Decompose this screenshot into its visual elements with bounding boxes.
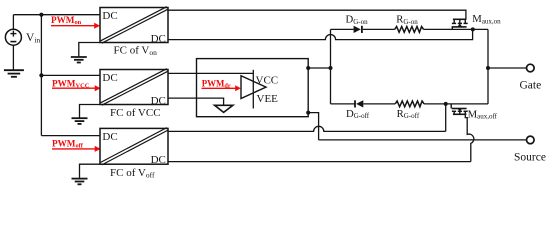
svg-text:DG-on: DG-on bbox=[346, 14, 369, 26]
svg-text:DC: DC bbox=[151, 154, 166, 166]
svg-text:PWMon: PWMon bbox=[51, 15, 82, 26]
wire gate node vertical bbox=[487, 29, 489, 104]
wire diode to resistor bbox=[363, 103, 395, 105]
terminal Gate bbox=[527, 64, 535, 72]
DC-DC converter FC3 (FC of Voff) bbox=[100, 128, 168, 167]
svg-text:Gate: Gate bbox=[520, 79, 542, 91]
DC-DC converter FC1 (FC of Von) bbox=[100, 7, 168, 45]
svg-text:PWMoff: PWMoff bbox=[52, 139, 84, 150]
wire diode to resistor bbox=[363, 28, 395, 30]
svg-text:DC: DC bbox=[102, 131, 117, 143]
wire Voff+ rail with hopover bbox=[168, 126, 446, 131]
resistor RG-on bbox=[395, 27, 424, 33]
node driver common pin bbox=[306, 111, 310, 115]
svg-text:DC: DC bbox=[102, 72, 117, 84]
ground for Vin bbox=[4, 70, 24, 77]
wire resistor to gate node bbox=[424, 28, 488, 30]
diode DG-on bbox=[354, 26, 362, 33]
diode DG-off bbox=[355, 100, 363, 107]
svg-text:DC: DC bbox=[102, 10, 117, 22]
resistor RG-off bbox=[395, 101, 424, 107]
svg-text:DC: DC bbox=[151, 95, 166, 107]
label PWMdr (red) with arrow bbox=[202, 78, 241, 91]
ground FC2 bbox=[72, 118, 88, 124]
wire Von+ rail to Maux,on drain bbox=[168, 10, 466, 19]
ground FC3 bbox=[72, 179, 88, 185]
node junction row2 bbox=[39, 73, 43, 77]
svg-text:Maux,on: Maux,on bbox=[472, 13, 501, 25]
wire input bus vertical bbox=[40, 15, 42, 136]
DC-DC converter FC2 (FC of VCC) bbox=[100, 69, 168, 107]
wire Voff+ riser to off branch bbox=[445, 104, 447, 131]
driver common triangle symbol bbox=[215, 105, 233, 112]
svg-text:RG-on: RG-on bbox=[396, 14, 418, 26]
svg-text:FC of Von: FC of Von bbox=[114, 45, 158, 58]
svg-text:FC of Voff: FC of Voff bbox=[110, 167, 155, 180]
svg-text:Maux,off: Maux,off bbox=[468, 109, 498, 121]
wire Maux,off to Voff- with crossover arc bbox=[465, 114, 474, 161]
wire driver common to source rail bbox=[308, 113, 318, 140]
node gate tee bbox=[486, 66, 490, 70]
node Von- junction bbox=[471, 27, 475, 31]
wire Source rail bbox=[319, 139, 527, 141]
svg-text:Source: Source bbox=[514, 152, 546, 164]
wire output bus vertical bbox=[330, 29, 332, 104]
wire top rail Vin to FC1 bbox=[13, 14, 100, 16]
gate driver block U1 bbox=[197, 59, 309, 117]
terminal Source bbox=[527, 136, 535, 144]
wire to Gate terminal bbox=[488, 67, 527, 69]
ground FC1 bbox=[71, 57, 87, 63]
wire rail to FC2 bbox=[41, 74, 100, 76]
wire on-branch bbox=[331, 28, 354, 30]
wire VCC+ FC2 to driver bbox=[168, 72, 253, 74]
wire resistor to gate node (off) bbox=[424, 103, 488, 105]
node output tee bbox=[329, 66, 333, 70]
wire rail to FC3 bbox=[41, 135, 100, 137]
wire Voff- rail bbox=[168, 161, 471, 163]
svg-text:VCC: VCC bbox=[256, 75, 279, 87]
label PWMoff (red) with arrow bbox=[52, 139, 101, 152]
svg-text:Vin: Vin bbox=[26, 32, 40, 45]
wire FC1 to ground bbox=[79, 43, 100, 57]
wire driver output bbox=[308, 67, 330, 69]
svg-text:DG-off: DG-off bbox=[346, 108, 370, 120]
op-amp buffer triangle bbox=[241, 76, 266, 99]
wire VEE- FC2 to driver common bbox=[168, 98, 224, 105]
svg-text:RG-off: RG-off bbox=[397, 108, 420, 120]
transistor Maux,on bbox=[452, 19, 468, 29]
node driver output pin bbox=[306, 66, 310, 70]
node junction at top rail bbox=[39, 13, 43, 17]
wire off-branch bbox=[331, 103, 356, 105]
svg-text:VEE: VEE bbox=[257, 93, 279, 105]
label PWMon (red) with arrow bbox=[51, 15, 100, 29]
svg-text:DC: DC bbox=[151, 33, 166, 45]
wire FC3 to ground bbox=[80, 164, 101, 178]
voltage source V1 Vin bbox=[5, 15, 21, 70]
transistor Maux,off bbox=[451, 104, 468, 114]
wire Von- with hopover to node bbox=[168, 29, 473, 39]
svg-text:FC of VCC: FC of VCC bbox=[110, 107, 161, 119]
wire VCC/VEE pin stub bbox=[252, 70, 254, 109]
node Voff+ junction bbox=[444, 102, 448, 106]
label PWMVCC (red) with arrow bbox=[52, 78, 101, 91]
wire FC2 to ground bbox=[80, 105, 101, 118]
